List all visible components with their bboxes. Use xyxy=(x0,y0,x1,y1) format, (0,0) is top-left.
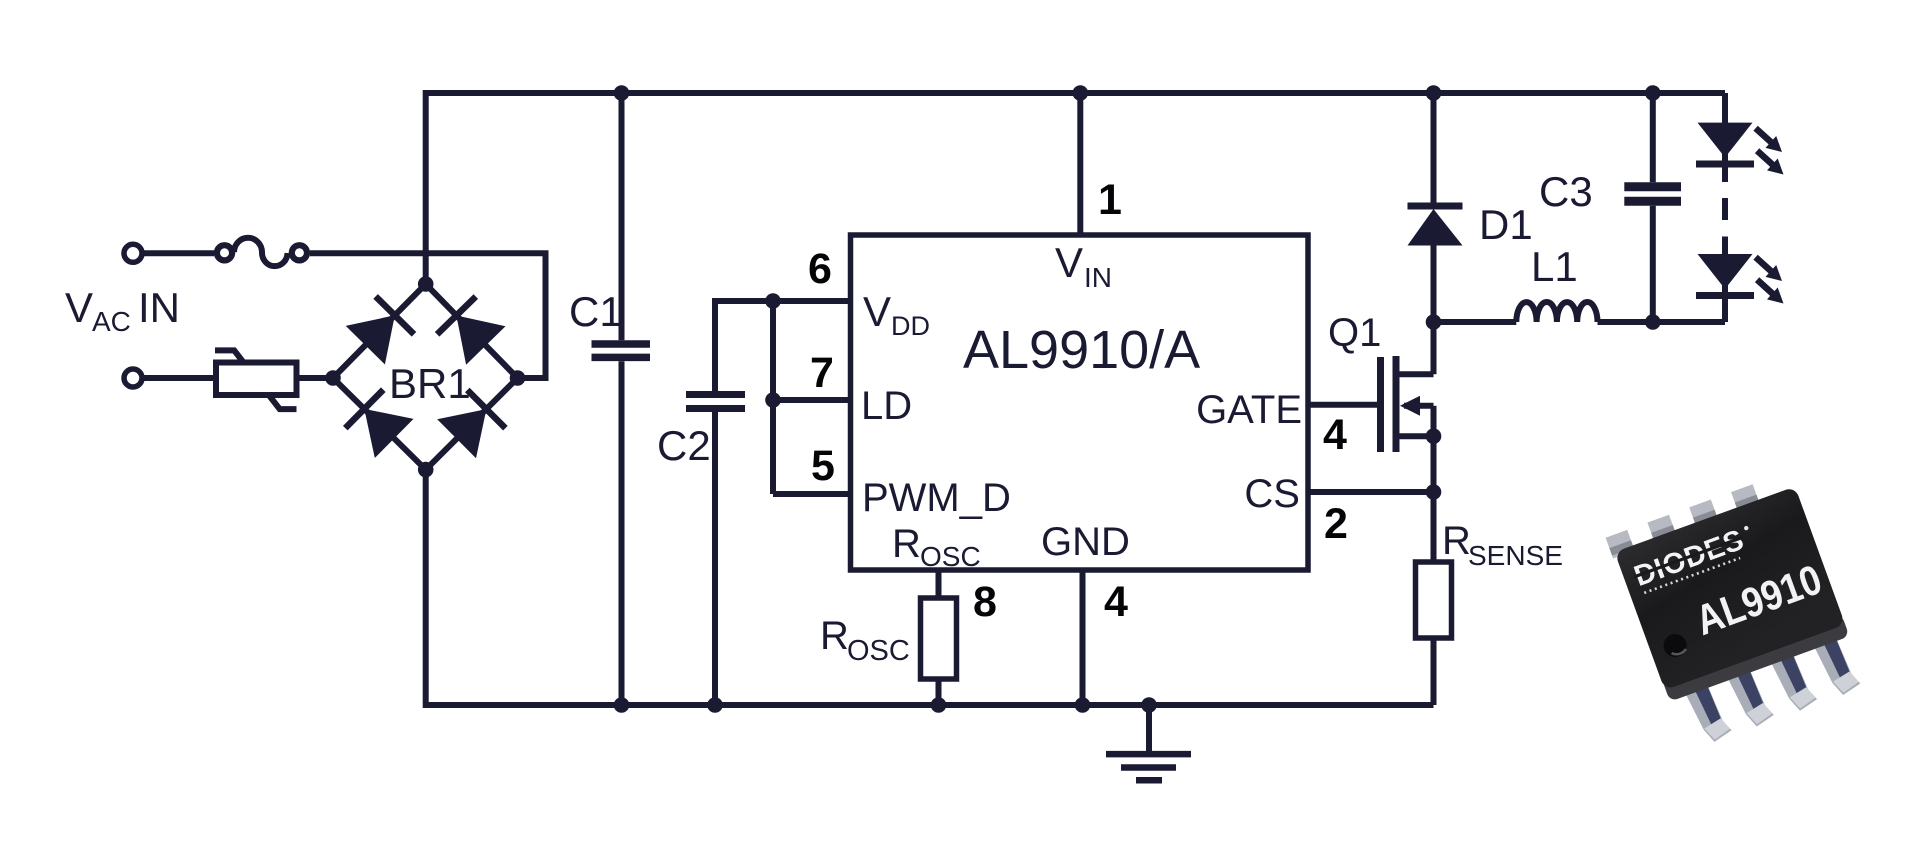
svg-text:R: R xyxy=(892,522,921,566)
svg-text:OSC: OSC xyxy=(847,635,910,667)
svg-text:V: V xyxy=(863,288,891,335)
svg-text:AC: AC xyxy=(92,306,131,337)
svg-text:IN: IN xyxy=(1084,262,1112,293)
svg-text:LD: LD xyxy=(861,384,912,428)
svg-text:4: 4 xyxy=(1323,411,1347,459)
svg-text:8: 8 xyxy=(973,578,997,626)
svg-text:C3: C3 xyxy=(1539,168,1593,215)
svg-text:AL9910/A: AL9910/A xyxy=(963,320,1200,380)
svg-text:OSC: OSC xyxy=(920,541,981,572)
svg-text:V: V xyxy=(65,284,93,331)
svg-text:R: R xyxy=(1442,519,1471,563)
svg-text:6: 6 xyxy=(808,245,832,293)
svg-text:GATE: GATE xyxy=(1196,388,1302,432)
svg-text:2: 2 xyxy=(1324,500,1348,548)
svg-text:GND: GND xyxy=(1041,520,1130,564)
svg-text:V: V xyxy=(1055,239,1083,286)
svg-text:SENSE: SENSE xyxy=(1468,540,1563,571)
svg-text:C1: C1 xyxy=(569,288,623,335)
svg-text:BR1: BR1 xyxy=(389,360,471,407)
svg-text:4: 4 xyxy=(1104,578,1128,626)
svg-text:Q1: Q1 xyxy=(1328,311,1381,355)
svg-text:DD: DD xyxy=(891,311,930,341)
svg-text:D1: D1 xyxy=(1479,201,1533,248)
svg-text:C2: C2 xyxy=(657,422,711,469)
svg-text:R: R xyxy=(820,614,849,658)
svg-text:1: 1 xyxy=(1098,176,1122,224)
svg-text:PWM_D: PWM_D xyxy=(862,476,1011,520)
svg-text:CS: CS xyxy=(1244,472,1300,516)
svg-text:5: 5 xyxy=(811,442,835,490)
svg-text:7: 7 xyxy=(810,349,834,397)
svg-text:IN: IN xyxy=(138,284,180,331)
svg-text:L1: L1 xyxy=(1531,243,1578,290)
